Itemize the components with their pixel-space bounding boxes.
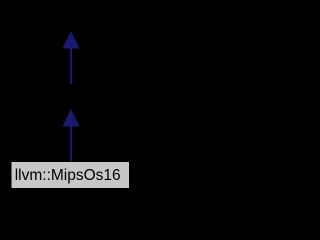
node base class (top, truncated black box) (45, 5, 97, 31)
node llvm::MipsOs16 (current class box) (11, 162, 130, 189)
svg-text:llvm::MipsOs16: llvm::MipsOs16 (15, 167, 121, 184)
arrow 2 shaft (70, 125, 72, 162)
arrow 1 head (inheritance, pointing up to top node) (63, 32, 79, 49)
arrow 2 head (inheritance, pointing up to middle node) (63, 110, 79, 127)
inheritance graph canvas (0, 0, 141, 195)
arrow 1 shaft (70, 47, 72, 85)
node middle class (truncated black box) (45, 84, 97, 109)
